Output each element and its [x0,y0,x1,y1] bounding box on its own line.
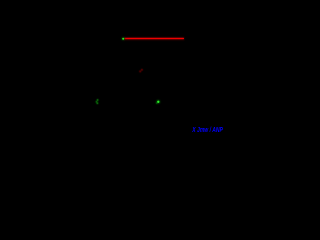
node D [156,100,160,104]
node B [139,69,143,73]
node A [122,37,125,40]
svg-text:X Jmw / ANP: X Jmw / ANP [192,125,224,134]
node C [96,99,99,104]
wire [124,37,185,40]
